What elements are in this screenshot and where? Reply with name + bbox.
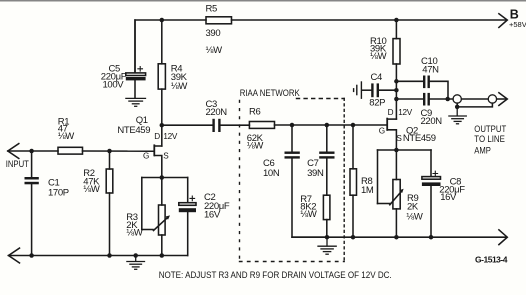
svg-text:1M: 1M: [361, 185, 374, 196]
node rail ground: [133, 253, 138, 258]
wire output circles bottom link: [457, 103, 492, 107]
label C9 220N: [421, 108, 443, 127]
transistor Q2: [386, 118, 396, 150]
wire top rail left (C5 corner to R5): [135, 20, 206, 73]
label INPUT: [6, 159, 30, 169]
svg-text:82P: 82P: [369, 97, 385, 108]
node drain C3 branch: [160, 123, 165, 128]
svg-text:390: 390: [206, 28, 221, 39]
label G-1513-4: [475, 254, 508, 264]
node drain C9: [394, 97, 399, 102]
label Q2 NTE459: [403, 125, 436, 144]
label D 12V of Q1: [154, 132, 178, 141]
capacitor C1: [25, 151, 39, 256]
svg-text:⅛W: ⅛W: [206, 45, 223, 56]
node gate R2: [107, 149, 112, 154]
capacitor C10: [396, 76, 448, 100]
svg-text:⅛W: ⅛W: [370, 51, 387, 62]
svg-text:16V: 16V: [204, 210, 221, 221]
resistor R10: [393, 20, 400, 119]
ground under C5: [126, 98, 146, 106]
transistor Q1: [153, 144, 161, 177]
node rail R8: [351, 235, 356, 240]
resistor R7: [323, 195, 330, 237]
wire bottom left rail: [9, 255, 188, 257]
node top rail to R4: [160, 18, 165, 23]
svg-text:S: S: [396, 134, 402, 143]
label C8: [439, 176, 465, 203]
svg-text:AMP: AMP: [474, 146, 491, 156]
svg-text:39N: 39N: [307, 168, 324, 179]
node C10 C9 output: [445, 97, 450, 102]
node R6 C6: [290, 123, 295, 128]
wire bottom right rail: [292, 236, 506, 238]
node drain C10: [394, 79, 399, 84]
svg-text:⅛W: ⅛W: [171, 81, 188, 92]
node rail R3: [160, 253, 165, 258]
top border line: [0, 0, 526, 2]
label R3: [126, 212, 143, 239]
svg-text:R5: R5: [206, 4, 218, 15]
svg-text:10N: 10N: [263, 168, 280, 179]
label C6 10N: [263, 158, 280, 179]
resistor R4: [158, 20, 165, 146]
svg-text:170P: 170P: [48, 187, 69, 198]
label B +58V: [509, 7, 526, 28]
svg-text:RIAA NETWORK: RIAA NETWORK: [240, 88, 301, 99]
svg-text:⅛W: ⅛W: [406, 211, 423, 222]
svg-text:G-1513-4: G-1513-4: [475, 254, 508, 264]
svg-text:⅛W: ⅛W: [83, 184, 100, 195]
label R2: [83, 168, 100, 195]
svg-text:C4: C4: [371, 72, 383, 83]
node drain C4: [394, 88, 399, 93]
capacitor C3: [162, 119, 250, 132]
INPUT arrow: [8, 144, 58, 159]
svg-text:D: D: [154, 132, 160, 141]
svg-text:G: G: [143, 151, 149, 160]
svg-text:⅛W: ⅛W: [126, 227, 143, 238]
label NOTE: [159, 270, 392, 280]
node rail C8: [429, 235, 434, 240]
label C1 170P: [48, 178, 69, 199]
label R6: [247, 107, 264, 152]
capacitor C7: [319, 125, 334, 195]
svg-text:G: G: [379, 126, 385, 135]
svg-text:220N: 220N: [421, 116, 443, 127]
svg-text:NOTE: ADJUST R3 AND R9 FOR DRA: NOTE: ADJUST R3 AND R9 FOR DRAIN VOLTAGE…: [159, 270, 392, 280]
node rail R2: [107, 253, 112, 258]
resistor R2: [106, 151, 113, 256]
label C10 47N: [421, 56, 439, 75]
capacitor C4: [362, 83, 396, 97]
ground at output: [449, 107, 466, 124]
capacitor C8: [422, 150, 441, 237]
node rail C1: [29, 253, 33, 258]
wire top rail right: [232, 19, 506, 21]
node R6 R8: [351, 123, 356, 128]
ground under bottom left rail: [127, 256, 145, 270]
svg-text:OUTPUT: OUTPUT: [474, 124, 506, 134]
node R7 ground: [325, 235, 330, 240]
label Q1 NTE459: [117, 115, 150, 136]
label C4 82P: [369, 72, 385, 108]
svg-text:R6: R6: [249, 107, 261, 118]
svg-text:100V: 100V: [103, 80, 125, 91]
label OUTPUT TO LINE AMP: [474, 124, 506, 156]
label R4: [171, 63, 188, 92]
node Q2 source: [394, 148, 399, 153]
trimmer R9: [390, 150, 404, 237]
node Q1 source junction: [160, 175, 165, 180]
output terminal circle 2: [462, 95, 506, 103]
svg-text:16V: 16V: [440, 192, 457, 203]
svg-text:NTE459: NTE459: [403, 133, 436, 144]
svg-text:⅛W: ⅛W: [300, 209, 317, 220]
wire source bus: [142, 178, 188, 230]
svg-text:12V: 12V: [163, 132, 178, 141]
svg-text:TO LINE: TO LINE: [474, 134, 505, 144]
label R8 1M: [361, 176, 374, 196]
terminal B arrow: [499, 14, 507, 28]
label RIAA NETWORK: [240, 88, 301, 99]
resistor R1: [58, 147, 153, 154]
svg-text:INPUT: INPUT: [6, 159, 30, 169]
capacitor C9: [396, 93, 453, 106]
label R9: [406, 193, 423, 223]
resistor R6: [249, 122, 386, 129]
capacitor C2: [179, 178, 196, 256]
label C5: [101, 63, 127, 90]
label C2: [204, 192, 230, 221]
label C7 39N: [307, 158, 324, 179]
label R1: [58, 116, 75, 142]
bottom right arrow: [499, 230, 507, 245]
svg-text:NTE459: NTE459: [117, 125, 150, 136]
label C3 220N: [206, 99, 228, 118]
label D 12V of Q2: [388, 108, 413, 117]
node rail R9: [394, 235, 399, 240]
label G S of Q1: [143, 151, 169, 160]
node output ground: [455, 105, 460, 110]
label R10: [370, 36, 387, 62]
wire Q2 source box: [378, 150, 432, 204]
svg-text:12V: 12V: [398, 108, 413, 117]
label R5: [206, 4, 223, 57]
svg-text:47N: 47N: [422, 64, 439, 75]
ground at C4: [354, 82, 362, 98]
label R7: [300, 194, 317, 220]
output terminal circle 1: [453, 95, 461, 103]
svg-text:⅛W: ⅛W: [247, 141, 264, 152]
node top rail to R10: [394, 18, 399, 23]
capacitor C6: [285, 125, 328, 237]
node R6 C7: [325, 123, 330, 128]
capacitor C5: [126, 20, 146, 98]
svg-text:S: S: [163, 151, 169, 160]
resistor R5: [206, 17, 232, 24]
svg-text:⅛W: ⅛W: [58, 131, 75, 142]
label G S of Q2: [379, 126, 403, 143]
svg-text:220N: 220N: [206, 107, 228, 118]
resistor R8: [350, 125, 357, 237]
bottom left arrow: [9, 248, 20, 263]
RIAA network dashed box: [240, 99, 345, 262]
output arrow: [499, 93, 507, 106]
svg-text:D: D: [388, 108, 394, 117]
trimmer R3: [154, 178, 171, 256]
svg-text:+58V: +58V: [509, 20, 526, 29]
node input C1: [29, 149, 33, 154]
ground under R7: [318, 237, 336, 254]
